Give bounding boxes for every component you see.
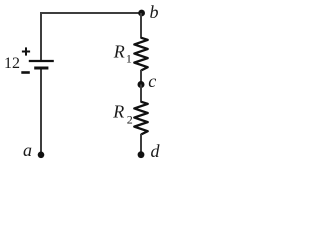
svg-text:2: 2	[127, 112, 133, 126]
resistor R1 zigzag	[134, 38, 147, 71]
wire from node c to R2	[140, 85, 142, 103]
svg-text:a: a	[23, 140, 32, 160]
svg-text:d: d	[151, 141, 161, 161]
svg-text:R: R	[113, 42, 125, 62]
battery minus sign	[21, 71, 30, 74]
wire from R1 to node c	[140, 70, 142, 85]
svg-text:c: c	[148, 71, 156, 91]
resistor R2 zigzag	[134, 102, 147, 135]
node a junction dot	[38, 152, 45, 159]
svg-text:R: R	[112, 102, 124, 122]
svg-text:b: b	[150, 2, 159, 22]
battery plus sign	[22, 47, 30, 55]
node c junction dot	[138, 81, 145, 88]
svg-text:1: 1	[126, 51, 132, 65]
wire left vertical from battery to node a	[40, 70, 42, 154]
svg-text:12: 12	[4, 55, 20, 72]
wire left vertical down to battery top plate	[40, 12, 42, 60]
wire top horizontal from battery branch to node b	[40, 12, 142, 14]
node b junction dot	[138, 10, 145, 17]
wire right vertical from node b to R1	[140, 13, 142, 39]
battery V1 bottom plate (negative, short thick)	[34, 67, 48, 70]
wire from R2 to node d	[140, 134, 142, 153]
node d junction dot	[138, 151, 145, 158]
battery V1 top plate (positive, long)	[29, 60, 54, 62]
